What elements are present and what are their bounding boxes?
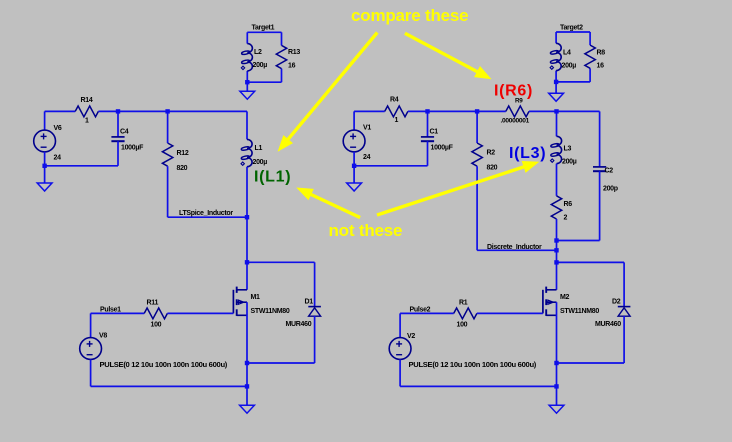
wire L1 bottom to drain node (246, 217, 248, 262)
transistor M1 (233, 262, 289, 386)
svg-text:24: 24 (54, 155, 62, 162)
annotation arrow to L1 (278, 33, 378, 152)
svg-text:I(L1): I(L1) (254, 169, 291, 186)
capacitor C4 (111, 111, 144, 165)
svg-text:D1: D1 (305, 299, 314, 306)
svg-text:820: 820 (487, 165, 498, 172)
node drain junction left (245, 260, 249, 264)
svg-text:MUR460: MUR460 (286, 321, 312, 328)
svg-text:100: 100 (151, 322, 162, 329)
node L1 bottom (245, 215, 249, 219)
node drain junction right (554, 260, 558, 264)
wire drain node to D2 top (557, 262, 625, 306)
svg-text:1000µF: 1000µF (431, 145, 454, 152)
voltage source V8 (80, 313, 228, 386)
annotation arrow to I(L1) (296, 188, 360, 218)
wire L3 bottom to C2 bottom (557, 240, 600, 242)
annotation arrow to I(R6) (405, 33, 492, 79)
svg-text:100: 100 (457, 322, 468, 329)
resistor R12 (162, 111, 188, 217)
node bottom rail left (245, 384, 249, 388)
resistor R13 (276, 45, 300, 69)
svg-text:1000µF: 1000µF (121, 145, 144, 152)
svg-text:not these: not these (329, 221, 403, 240)
svg-text:L1: L1 (255, 145, 263, 152)
net label Target1 (252, 25, 275, 32)
node C4 top (116, 109, 120, 113)
svg-text:M1: M1 (251, 294, 261, 301)
svg-text:L2: L2 (254, 49, 262, 56)
svg-text:V8: V8 (99, 333, 107, 340)
svg-text:16: 16 (288, 63, 296, 70)
svg-text:I(L3): I(L3) (509, 145, 546, 162)
ground below V6 (37, 166, 52, 191)
wire top rail V1-R4 (354, 110, 385, 112)
wire V1 bottom to C1 (354, 165, 427, 167)
wire L3 junction down to drain node (556, 241, 558, 263)
wire drain node to D1 top (247, 262, 315, 306)
svg-text:I(R6): I(R6) (494, 83, 533, 100)
svg-text:M2: M2 (560, 294, 570, 301)
node R2 top (475, 109, 479, 113)
ground Target1 (240, 82, 255, 99)
svg-text:Target2: Target2 (560, 25, 583, 32)
ground Target2 (549, 82, 564, 101)
capacitor C2 (593, 111, 618, 240)
ground below V1 (347, 166, 362, 191)
net label Discrete_Inductor (487, 244, 542, 251)
node L3 top (554, 109, 558, 113)
node L3-C2 junction (554, 238, 558, 242)
svg-text:200µ: 200µ (562, 159, 577, 166)
svg-text:V2: V2 (407, 333, 415, 340)
svg-text:D2: D2 (612, 299, 621, 306)
wire R2 bottom junction (477, 249, 556, 251)
wire top rail R4-C1-R2-R9 (408, 110, 506, 112)
annotation arrow to I(L3) (377, 161, 539, 215)
svg-text:R1: R1 (459, 300, 468, 307)
ground bottom right (549, 386, 564, 413)
svg-text:16: 16 (597, 63, 605, 70)
wire gate Pulse2 segment (400, 312, 454, 314)
voltage source V2 (389, 313, 537, 386)
svg-text:C1: C1 (430, 129, 439, 136)
node Target1 ground junction (245, 80, 249, 84)
annotation not these (329, 221, 403, 240)
svg-text:STW11NM80: STW11NM80 (251, 308, 290, 315)
svg-text:1: 1 (395, 117, 399, 124)
diode D2 (595, 299, 630, 364)
wire D2 bottom to source node (557, 362, 625, 364)
svg-text:C4: C4 (120, 129, 129, 136)
svg-text:STW11NM80: STW11NM80 (560, 308, 599, 315)
net label Target2 (560, 25, 583, 32)
capacitor C1 (421, 111, 454, 165)
svg-text:MUR460: MUR460 (595, 321, 621, 328)
node V6-ground junction (42, 164, 46, 168)
wire D1 bottom to source node (247, 362, 315, 364)
net label LTSpice_Inductor (179, 210, 233, 217)
svg-text:L3: L3 (564, 146, 572, 153)
wire bottom rail right (400, 385, 556, 387)
voltage source V1 (343, 111, 371, 165)
svg-text:R6: R6 (564, 201, 573, 208)
plot trace label I(R6) (494, 83, 533, 100)
svg-text:R11: R11 (147, 300, 159, 307)
svg-text:R13: R13 (288, 49, 300, 56)
inductor L2 (241, 44, 267, 71)
plot trace label I(L1) (254, 169, 291, 186)
svg-text:R8: R8 (597, 50, 606, 57)
node Target2 ground junction (554, 80, 558, 84)
svg-text:Target1: Target1 (252, 25, 275, 32)
node source junction right (554, 361, 558, 365)
svg-text:LTSpice_Inductor: LTSpice_Inductor (179, 210, 233, 217)
wire Target1 box (247, 32, 281, 82)
svg-text:200µ: 200µ (253, 62, 268, 69)
svg-text:2: 2 (564, 215, 568, 222)
net label Pulse1 (100, 307, 121, 314)
svg-text:24: 24 (363, 154, 371, 161)
inductor L4 (550, 43, 576, 70)
svg-text:V6: V6 (54, 125, 62, 132)
resistor R14 (75, 97, 98, 125)
svg-text:compare these: compare these (351, 6, 468, 25)
wire V6 bottom to C4 (45, 165, 118, 167)
transistor M2 (543, 262, 599, 386)
svg-text:820: 820 (177, 165, 188, 172)
svg-text:200µ: 200µ (562, 63, 577, 70)
wire R12 bottom to L1 bottom (168, 216, 247, 218)
svg-text:Pulse2: Pulse2 (410, 307, 431, 314)
resistor R1 (454, 300, 477, 329)
svg-text:R4: R4 (390, 97, 399, 104)
resistor R9 (501, 98, 530, 125)
svg-text:200p: 200p (603, 186, 618, 193)
svg-text:R14: R14 (81, 97, 93, 104)
wire top rail R14-C4-R12-L1 (98, 110, 247, 112)
wire top rail R9-C2 corner (529, 110, 600, 112)
svg-text:200µ: 200µ (253, 159, 268, 166)
wire R1 to M2 gate (477, 312, 543, 314)
svg-text:R12: R12 (177, 150, 189, 157)
svg-text:Pulse1: Pulse1 (100, 307, 121, 314)
svg-text:Discrete_Inductor: Discrete_Inductor (487, 244, 542, 251)
node source junction left (245, 361, 249, 365)
svg-text:R2: R2 (487, 150, 496, 157)
resistor R6 (551, 196, 572, 241)
node R2-junction (554, 248, 558, 252)
annotation compare these (351, 6, 468, 25)
wire bottom rail left (91, 385, 247, 387)
node R12 top (165, 109, 169, 113)
resistor R8 (585, 45, 605, 69)
resistor R2 (472, 111, 498, 250)
svg-text:.00000001: .00000001 (501, 118, 530, 125)
node C1 top (425, 109, 429, 113)
svg-text:PULSE(0 12 10u 100n 100n 100u: PULSE(0 12 10u 100n 100n 100u 600u) (409, 360, 537, 369)
node V1-ground junction (352, 164, 356, 168)
inductor L1 (241, 111, 267, 217)
svg-text:C2: C2 (605, 168, 614, 175)
svg-text:PULSE(0 12 10u 100n 100n 100u: PULSE(0 12 10u 100n 100n 100u 600u) (100, 360, 228, 369)
resistor R4 (385, 97, 408, 125)
voltage source V6 (34, 111, 62, 165)
svg-text:1: 1 (85, 118, 89, 125)
wire Target2 box (556, 32, 590, 82)
node bottom rail right (554, 384, 558, 388)
plot trace label I(L3) (509, 145, 546, 162)
svg-text:V1: V1 (363, 125, 371, 132)
resistor R11 (144, 300, 167, 329)
net label Pulse2 (410, 307, 431, 314)
wire R11 to M1 gate (167, 312, 233, 314)
wire top rail V6-R14 (45, 110, 76, 112)
ground bottom left (240, 386, 255, 413)
svg-text:L4: L4 (563, 50, 571, 57)
diode D1 (286, 299, 321, 364)
wire gate Pulse1 segment (91, 312, 145, 314)
inductor L3 (550, 111, 576, 195)
